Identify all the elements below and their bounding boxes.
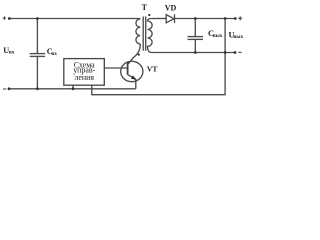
svg-text:вых: вых xyxy=(213,33,223,39)
svg-text:VT: VT xyxy=(147,64,158,73)
svg-text:вых: вых xyxy=(233,34,243,40)
svg-text:вх: вх xyxy=(51,51,57,57)
svg-text:ления: ления xyxy=(74,73,94,82)
svg-text:T: T xyxy=(142,3,148,12)
svg-text:VD: VD xyxy=(165,3,177,12)
svg-text:вх: вх xyxy=(9,49,15,55)
